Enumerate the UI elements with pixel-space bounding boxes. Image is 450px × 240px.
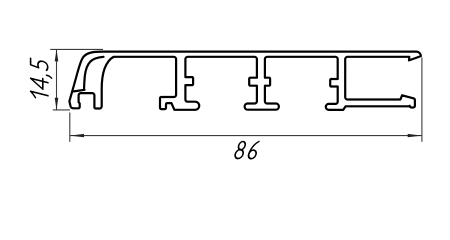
vertical dimension line 14,5 bbox=[56, 49, 58, 109]
nose hole bottom (block top line) bbox=[74, 90, 85, 92]
nose inner wall curve (hole right boundary) bbox=[84, 57, 104, 90]
dimension text 14,5 bbox=[31, 58, 52, 101]
arrow left (86) bbox=[70, 134, 84, 137]
digit 5 bbox=[31, 58, 48, 70]
dimension text 86 bbox=[234, 142, 259, 159]
aluminum profile cross-section outline bbox=[69, 52, 421, 110]
digit 1 bbox=[31, 91, 48, 100]
arrow down (14,5 bottom) bbox=[55, 98, 59, 110]
bottom extension line bbox=[53, 109, 70, 111]
digit 6 bbox=[248, 142, 259, 158]
comma bbox=[47, 75, 52, 78]
arrow up (14,5 top) bbox=[55, 49, 59, 61]
horizontal dimension line 86 bbox=[70, 135, 422, 137]
digit 8 bbox=[238, 142, 246, 150]
profile outer boundary bbox=[69, 52, 421, 110]
right extension line 86 bbox=[421, 58, 423, 142]
digit 4 bbox=[31, 76, 48, 91]
left extension line 86 bbox=[69, 113, 71, 142]
top extension line bbox=[50, 48, 103, 50]
dimension lines bbox=[50, 49, 422, 141]
arrow right (86) bbox=[408, 134, 422, 137]
